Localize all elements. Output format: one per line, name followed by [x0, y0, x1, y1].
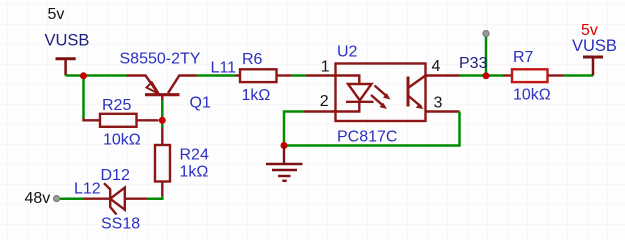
- no-connect dot 48v (gray): [54, 196, 60, 202]
- svg-text:5v: 5v: [48, 6, 65, 23]
- U2 light arrow 2 head: [380, 103, 388, 109]
- wire junction A down to R25: [82, 76, 85, 119]
- svg-text:48v: 48v: [25, 190, 51, 207]
- optocoupler U2 PC817C: [304, 64, 460, 122]
- svg-text:S8550-2TY: S8550-2TY: [120, 51, 201, 68]
- junction dot A: [80, 72, 87, 79]
- svg-text:R24: R24: [180, 147, 209, 164]
- junction dot base: [159, 117, 166, 124]
- svg-text:3: 3: [434, 94, 443, 111]
- svg-text:R6: R6: [242, 51, 263, 68]
- svg-text:2: 2: [320, 93, 329, 110]
- wire Q1 base to R24: [161, 100, 164, 128]
- svg-text:R7: R7: [513, 49, 534, 66]
- ground symbol: [266, 146, 303, 181]
- U2 body box: [336, 64, 426, 122]
- no-connect dot (gray): [483, 31, 489, 37]
- svg-text:1kΩ: 1kΩ: [242, 87, 271, 104]
- U2 phototransistor base bar: [407, 77, 410, 107]
- resistor R24 1k: [155, 128, 170, 196]
- svg-text:L12: L12: [74, 180, 101, 197]
- U2 phototransistor emitter arrowhead: [416, 103, 424, 109]
- wire Q1 collector to R6: [197, 74, 236, 77]
- svg-text:PC817C: PC817C: [337, 129, 397, 146]
- wire U2 pin 2 to ground junction: [284, 112, 304, 146]
- svg-text:1: 1: [321, 59, 330, 76]
- wire R24 to D12 anode: [147, 196, 162, 199]
- wire 48v pin to D12 cathode: [60, 197, 84, 200]
- svg-text:1kΩ: 1kΩ: [180, 164, 209, 181]
- U2 LED anode path: [336, 76, 360, 85]
- junction dot P33: [483, 72, 490, 79]
- svg-text:Q1: Q1: [190, 95, 211, 112]
- power flag VUSB (top-right): [583, 57, 603, 76]
- svg-text:U2: U2: [337, 44, 358, 61]
- wire U2 pin 4 to R7: [460, 74, 504, 77]
- power flag VUSB (top-left): [56, 59, 76, 76]
- svg-text:VUSB: VUSB: [572, 37, 617, 55]
- svg-text:P33: P33: [459, 55, 488, 72]
- U2 phototransistor collector: [408, 76, 426, 89]
- svg-text:SS18: SS18: [101, 216, 140, 233]
- resistor R25 10k: [84, 114, 159, 127]
- U2 light arrow 1 head: [383, 93, 391, 99]
- junction dot ground: [281, 142, 288, 149]
- resistor R6 1k: [235, 69, 291, 82]
- svg-text:R25: R25: [102, 97, 131, 114]
- U2 pin 2 stub: [304, 110, 336, 112]
- transistor Q1 S8550-2TY (PNP): [127, 76, 197, 102]
- U2 light arrow 1: [375, 86, 387, 97]
- U2 pin 3 stub: [426, 110, 460, 112]
- U2 LED triangle: [348, 84, 372, 100]
- diode D12 SS18 (schottky): [84, 183, 148, 214]
- svg-text:VUSB: VUSB: [45, 31, 90, 49]
- wire stub up to no-connect point: [485, 36, 488, 76]
- wire R6 to U2 pin 1: [291, 74, 306, 77]
- wire U2 pin 3 to ground junction: [284, 112, 460, 146]
- U2 light arrow 2: [371, 95, 383, 106]
- svg-text:D12: D12: [101, 167, 130, 184]
- Q1 emitter arrowhead: [147, 82, 159, 94]
- wire VUSB flag to Q1 emitter: [66, 74, 127, 77]
- U2 pin 4 stub: [426, 74, 460, 76]
- svg-text:4: 4: [432, 58, 441, 75]
- U2 phototransistor emitter: [408, 96, 422, 108]
- svg-text:10kΩ: 10kΩ: [513, 86, 551, 103]
- svg-text:10kΩ: 10kΩ: [103, 132, 141, 149]
- U2 LED cathode bar: [346, 101, 374, 103]
- U2 LED cathode path to pin 2: [336, 102, 360, 112]
- resistor R7 10k: [503, 69, 563, 82]
- wire R7 to VUSB flag (right): [563, 74, 593, 77]
- svg-text:L11: L11: [211, 59, 237, 76]
- U2 pin 1 stub: [306, 74, 336, 76]
